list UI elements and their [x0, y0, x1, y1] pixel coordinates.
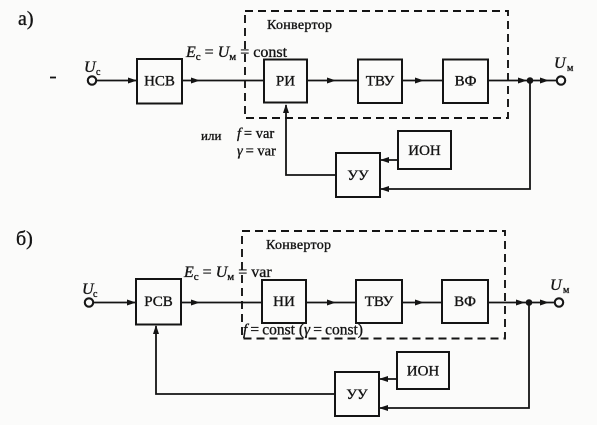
svg-text:м: м — [567, 63, 574, 74]
svg-text:U: U — [554, 55, 567, 72]
svg-text:или: или — [201, 128, 221, 143]
svg-text:УУ: УУ — [346, 387, 368, 403]
svg-text:РИ: РИ — [276, 74, 295, 90]
svg-text:Конвертор: Конвертор — [266, 238, 331, 253]
svg-text:УУ: УУ — [347, 168, 369, 184]
svg-text:ВФ: ВФ — [455, 74, 477, 90]
svg-text:f = const (γ = const): f = const (γ = const) — [243, 322, 363, 339]
svg-text:НИ: НИ — [273, 294, 295, 310]
svg-text:f = var: f = var — [237, 126, 274, 142]
svg-text:Конвертор: Конвертор — [267, 18, 332, 33]
svg-text:РСВ: РСВ — [144, 294, 173, 310]
svg-text:U: U — [550, 277, 563, 294]
svg-text:ИОН: ИОН — [408, 143, 441, 159]
svg-text:ВФ: ВФ — [454, 294, 476, 310]
svg-text:c: c — [96, 67, 101, 78]
svg-text:м: м — [563, 285, 570, 296]
svg-text:б): б) — [16, 228, 33, 250]
svg-text:ТВУ: ТВУ — [366, 74, 395, 90]
svg-text:c: c — [93, 289, 98, 300]
svg-text:ТВУ: ТВУ — [365, 294, 394, 310]
svg-text:а): а) — [18, 8, 34, 30]
svg-text:НСВ: НСВ — [144, 74, 175, 90]
svg-text:ИОН: ИОН — [407, 364, 440, 380]
svg-text:γ = var: γ = var — [237, 144, 276, 160]
